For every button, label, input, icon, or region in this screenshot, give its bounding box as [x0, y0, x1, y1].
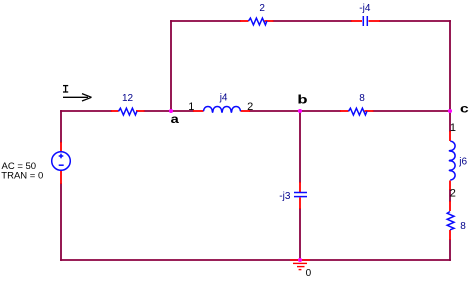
svg-text:c: c: [460, 103, 469, 117]
svg-text:1: 1: [450, 122, 456, 134]
svg-text:1: 1: [188, 101, 194, 113]
svg-text:8: 8: [460, 221, 466, 232]
svg-text:2: 2: [259, 3, 265, 14]
svg-text:TRAN = 0: TRAN = 0: [1, 171, 43, 182]
svg-text:0: 0: [306, 268, 312, 279]
svg-text:a: a: [170, 114, 179, 127]
svg-text:b: b: [297, 94, 307, 107]
svg-text:-j4: -j4: [359, 3, 371, 14]
svg-text:8: 8: [359, 93, 365, 104]
svg-text:j6: j6: [458, 157, 467, 168]
svg-text:2: 2: [247, 101, 253, 113]
svg-text:-j3: -j3: [279, 191, 291, 202]
svg-text:12: 12: [122, 93, 134, 104]
svg-text:j4: j4: [219, 93, 228, 104]
svg-text:2: 2: [450, 187, 456, 199]
